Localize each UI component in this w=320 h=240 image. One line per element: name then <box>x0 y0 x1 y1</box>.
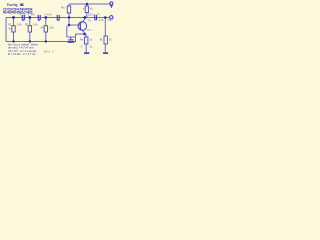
svg-text:Fu=f·tg: Fu=f·tg <box>7 3 18 7</box>
svg-text:RL: RL <box>100 38 104 42</box>
svg-text:Re: Re <box>80 37 84 41</box>
svg-text:2πRC: 2πRC <box>20 3 25 7</box>
svg-text:10k: 10k <box>17 22 23 26</box>
svg-text:100n: 100n <box>88 12 95 16</box>
svg-text:4,7n: 4,7n <box>20 13 27 17</box>
svg-text:C 4,7n: C 4,7n <box>45 13 53 17</box>
svg-text:Bild 3: Bild 3 <box>44 49 54 53</box>
svg-text:10k: 10k <box>49 26 54 30</box>
svg-text:R = 10 kΩ · C = 4,7 nF ·: R = 10 kΩ · C = 4,7 nF · <box>8 52 37 56</box>
svg-text:NF~: NF~ <box>108 18 113 22</box>
svg-text:R3: R3 <box>41 26 45 30</box>
svg-text:R2: R2 <box>25 22 29 26</box>
svg-text:R1: R1 <box>8 22 12 26</box>
svg-text:4,7k: 4,7k <box>99 18 105 22</box>
svg-text:25µ: 25µ <box>89 45 93 49</box>
svg-text:C 4,7n: C 4,7n <box>28 13 36 17</box>
svg-text:T1: T1 <box>88 19 92 23</box>
svg-text:10k: 10k <box>33 22 39 26</box>
svg-text:Ra: Ra <box>61 5 65 9</box>
svg-text:BC5: BC5 <box>87 28 92 32</box>
